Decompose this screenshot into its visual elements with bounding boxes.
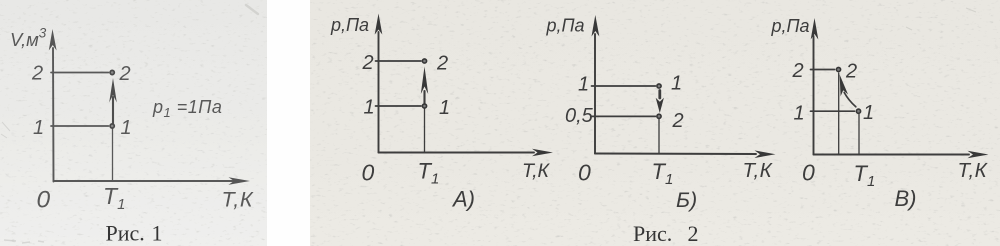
right scanned paper panel xyxy=(310,0,1000,246)
figA y-axis arrowhead xyxy=(375,14,383,35)
svg-text:1: 1 xyxy=(671,73,682,95)
svg-text:2: 2 xyxy=(436,53,448,75)
figV T1 vertical line xyxy=(858,115,860,155)
figA point 1 xyxy=(422,104,426,108)
faint mark left edge xyxy=(1,122,10,138)
fig1 point 1 xyxy=(110,124,114,128)
fig1 y-axis xyxy=(52,48,55,182)
svg-text:А): А) xyxy=(451,187,475,212)
figA x-axis xyxy=(379,152,535,154)
figB process arrowhead down xyxy=(656,98,664,113)
svg-text:1: 1 xyxy=(794,103,805,125)
paper grain left xyxy=(0,0,267,246)
figV y-axis xyxy=(813,36,815,155)
fig1 process arrowhead up xyxy=(109,78,117,103)
figA x-axis arrowhead xyxy=(532,149,553,157)
svg-text:T,К: T,К xyxy=(958,159,989,182)
figV x-axis arrowhead xyxy=(968,151,989,159)
svg-text:1: 1 xyxy=(578,74,589,96)
figV line p=1 xyxy=(811,110,855,112)
svg-text:1: 1 xyxy=(863,102,874,124)
svg-text:2: 2 xyxy=(792,60,804,82)
figA point 2 xyxy=(422,59,426,63)
left scanned paper panel xyxy=(0,0,267,246)
figB x-axis arrowhead xyxy=(755,150,776,158)
svg-text:1: 1 xyxy=(439,97,450,119)
fig1 y-axis arrowhead xyxy=(49,29,57,51)
figA process arrowhead up xyxy=(421,67,428,95)
figV vertical line under point2 xyxy=(838,73,840,155)
fig1 x-axis xyxy=(54,180,244,182)
svg-text:p,Па: p,Па xyxy=(546,16,585,36)
bottom left speckles xyxy=(4,240,44,243)
fig1 process arrow shaft xyxy=(112,97,114,124)
figA line p=2 xyxy=(376,60,422,62)
svg-text:2: 2 xyxy=(845,61,857,83)
svg-text:Рис.1: Рис.1 xyxy=(106,221,163,246)
figA T1 vertical line xyxy=(424,109,426,153)
faint smudge right panel top xyxy=(966,8,976,12)
svg-text:2: 2 xyxy=(362,52,374,74)
svg-text:В): В) xyxy=(895,186,917,211)
svg-text:0: 0 xyxy=(578,160,591,186)
svg-text:2: 2 xyxy=(672,110,684,132)
figB point 2 xyxy=(657,114,661,118)
svg-text:Б): Б) xyxy=(676,188,697,212)
figV y-axis arrowhead xyxy=(811,18,819,40)
figA process arrow shaft xyxy=(423,91,425,103)
svg-text:T,К: T,К xyxy=(522,160,551,182)
figB y-axis xyxy=(594,34,596,154)
figV line p=2 xyxy=(811,69,835,71)
figB line p=1 xyxy=(592,85,656,87)
figB T1 vertical line xyxy=(658,119,660,154)
figB point 1 xyxy=(657,84,661,88)
figB y-axis arrowhead xyxy=(592,15,600,37)
svg-text:0,5: 0,5 xyxy=(565,105,594,127)
svg-text:Рис.2: Рис.2 xyxy=(633,221,699,246)
paper grain right xyxy=(310,0,1000,246)
figA y-axis xyxy=(378,32,380,153)
fig1 T1 vertical line xyxy=(112,129,114,181)
svg-text:0: 0 xyxy=(802,160,815,186)
svg-text:0: 0 xyxy=(362,160,375,186)
figV point 2 xyxy=(836,67,840,71)
figV x-axis xyxy=(814,154,970,156)
svg-text:1: 1 xyxy=(364,97,375,119)
figB line p=0.5 xyxy=(592,115,656,117)
figV curved arrowhead xyxy=(840,75,848,97)
figV curved process arrow xyxy=(844,93,856,107)
svg-text:p,Па: p,Па xyxy=(330,15,369,35)
fig1 point 2 xyxy=(110,70,114,74)
figA line p=1 xyxy=(376,105,422,107)
scratch mark top right of left panel xyxy=(246,5,258,14)
faint smudge near B graph xyxy=(906,27,912,30)
fig1 line V=2 xyxy=(51,72,109,74)
figB process arrow shaft xyxy=(658,91,661,99)
figV point 1 xyxy=(856,109,860,113)
fig1 line V=1 xyxy=(51,125,109,127)
svg-text:T,К: T,К xyxy=(743,159,774,182)
svg-text:p,Па: p,Па xyxy=(771,16,810,36)
figB x-axis xyxy=(595,153,756,156)
fig1 x-axis arrowhead xyxy=(229,177,251,185)
